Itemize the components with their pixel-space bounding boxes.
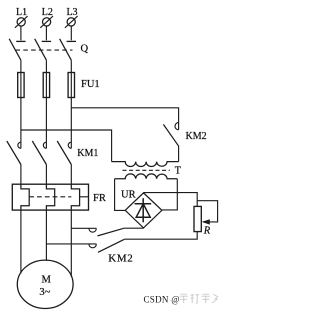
svg-text:FR: FR	[93, 193, 106, 204]
terminal L3	[65, 16, 78, 28]
svg-text:FU1: FU1	[81, 79, 100, 90]
terminal L2	[40, 16, 53, 28]
wire KM1 to FR phase 3	[70, 165, 72, 185]
transformer T core dashed	[123, 169, 170, 171]
switch Q pole 2 fixed contact	[42, 40, 51, 42]
wire FR to motor phase 3	[70, 211, 72, 277]
wire FU1 to KM1 phase 1	[20, 98, 22, 149]
switch Q pole 3 blade	[60, 39, 72, 60]
wire KM1 to FR phase 2	[45, 165, 47, 185]
wire Q to FU1 phase 3	[70, 60, 72, 72]
resistor R slider loop	[197, 201, 217, 222]
contactor KM1 pole 1	[7, 141, 21, 165]
motor M circle	[17, 260, 73, 308]
rectifier UR diode	[135, 198, 152, 222]
resistor R slider arrow	[202, 219, 210, 224]
wire rectifier plus to R	[144, 193, 198, 207]
wire KM2 to transformer primary	[178, 146, 180, 162]
FR heater element 3	[71, 185, 79, 211]
contactor KM2 top contact	[163, 123, 178, 147]
fuse FU1 pole 3	[68, 73, 74, 98]
svg-text:KM2: KM2	[186, 131, 207, 142]
switch Q pole 1 blade	[9, 39, 21, 60]
contactor KM2 bottom contact row 2	[46, 239, 124, 252]
wire Q to FU1 phase 1	[20, 60, 22, 72]
svg-text:UR: UR	[121, 190, 136, 201]
wire FR to motor phase 2	[45, 211, 47, 261]
wire KM1 to FR phase 1	[20, 165, 22, 185]
switch Q pole 3 fixed contact	[67, 40, 76, 42]
wire secondary left to rectifier	[115, 179, 126, 211]
fuse FU1 pole 1	[18, 73, 24, 98]
wire R bottom	[124, 232, 197, 240]
switch Q pole 2 blade	[35, 39, 47, 60]
wire FR to motor phase 1	[20, 211, 22, 274]
svg-text:T: T	[175, 166, 181, 177]
wire branch phase 3 to KM2 top contact	[71, 108, 178, 130]
contactor KM2 bottom contact row 1	[71, 228, 143, 236]
transformer T secondary winding	[115, 174, 178, 179]
svg-text:KM2: KM2	[108, 252, 133, 264]
svg-text:M: M	[42, 275, 52, 286]
FR heater element 2	[46, 185, 54, 211]
svg-text:KM1: KM1	[77, 148, 98, 159]
svg-text:R: R	[203, 226, 211, 237]
svg-text:L1: L1	[16, 7, 27, 18]
FR heater element 1	[21, 185, 29, 211]
svg-text:L3: L3	[66, 7, 77, 18]
FR actuator dashed link	[29, 196, 71, 198]
wire secondary right to rectifier	[162, 179, 177, 210]
terminal L1	[15, 16, 28, 28]
svg-text:3~: 3~	[39, 287, 50, 298]
transformer T primary winding	[112, 162, 179, 167]
wire Q to FU1 phase 2	[45, 60, 47, 72]
svg-text:L2: L2	[42, 7, 53, 18]
contactor KM1 pole 2	[32, 141, 46, 165]
rectifier UR diamond	[125, 193, 162, 228]
switch Q pole 1 fixed contact	[16, 40, 25, 42]
svg-text:CSDN @: CSDN @	[144, 294, 180, 304]
switch Q interlock dashed link	[16, 49, 73, 51]
thermal relay FR box	[12, 184, 88, 210]
wire L2 to Q	[45, 26, 47, 40]
wire FU1 to KM1 phase 3	[70, 98, 72, 149]
wire L3 to Q	[70, 26, 72, 40]
wire branch phase 1 to transformer primary	[21, 130, 112, 162]
wire L1 to Q	[20, 26, 22, 40]
fuse FU1 pole 2	[43, 73, 49, 98]
svg-text:Q: Q	[81, 44, 89, 55]
contactor KM1 pole 3	[57, 141, 71, 165]
resistor R body	[194, 206, 201, 231]
wire FU1 to KM1 phase 2	[45, 98, 47, 149]
